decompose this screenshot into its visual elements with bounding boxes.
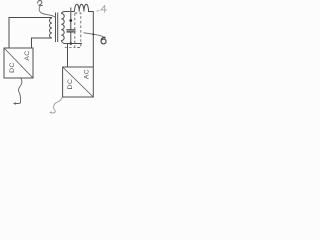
node A junction dot [69, 19, 72, 22]
svg-text:AC: AC [84, 69, 91, 79]
svg-text:AC: AC [24, 50, 31, 60]
node B junction dot [70, 42, 73, 45]
wire: primary top rail with left stub [9, 18, 52, 49]
junction dot at leader crossing [92, 33, 94, 35]
wire: inductor to box 5 right side [88, 12, 93, 68]
dashed box 6 [75, 13, 81, 48]
capacitor C1 plates [67, 30, 76, 32]
wire: primary bottom rail with stub to box 1 [32, 38, 53, 48]
DC/AC converter box 5 [63, 67, 94, 97]
label 2 [38, 1, 43, 6]
label 4 leader tick [96, 9, 99, 12]
transformer T1 primary winding [50, 18, 52, 38]
inductor L1 [75, 4, 89, 11]
transformer T1 secondary winding [61, 14, 64, 41]
dashed line extension at bottom of box 6 [65, 47, 75, 49]
label 1 arrowhead [13, 102, 16, 105]
label 1 leader line [15, 78, 22, 103]
wire: capacitor C1 lower lead [70, 33, 72, 44]
wire: secondary top terminal to rail [61, 12, 70, 14]
transformer T1 core [56, 13, 58, 43]
label 4 [101, 5, 107, 13]
label 6 [101, 37, 106, 44]
svg-text:DC: DC [67, 79, 74, 90]
wire: secondary bottom rail [61, 41, 82, 44]
label 5 leader line [51, 97, 63, 113]
label 6 leader line [84, 33, 105, 39]
svg-text:DC: DC [9, 62, 16, 73]
DC/AC converter box 1 [4, 48, 33, 78]
wire: stub from bottom rail to box 5 [67, 44, 69, 68]
label 5 arrowhead [49, 111, 51, 113]
wire: vertical branch at node A [70, 8, 72, 30]
wire: rail to inductor [71, 11, 75, 13]
label 2 leader line [39, 6, 56, 17]
